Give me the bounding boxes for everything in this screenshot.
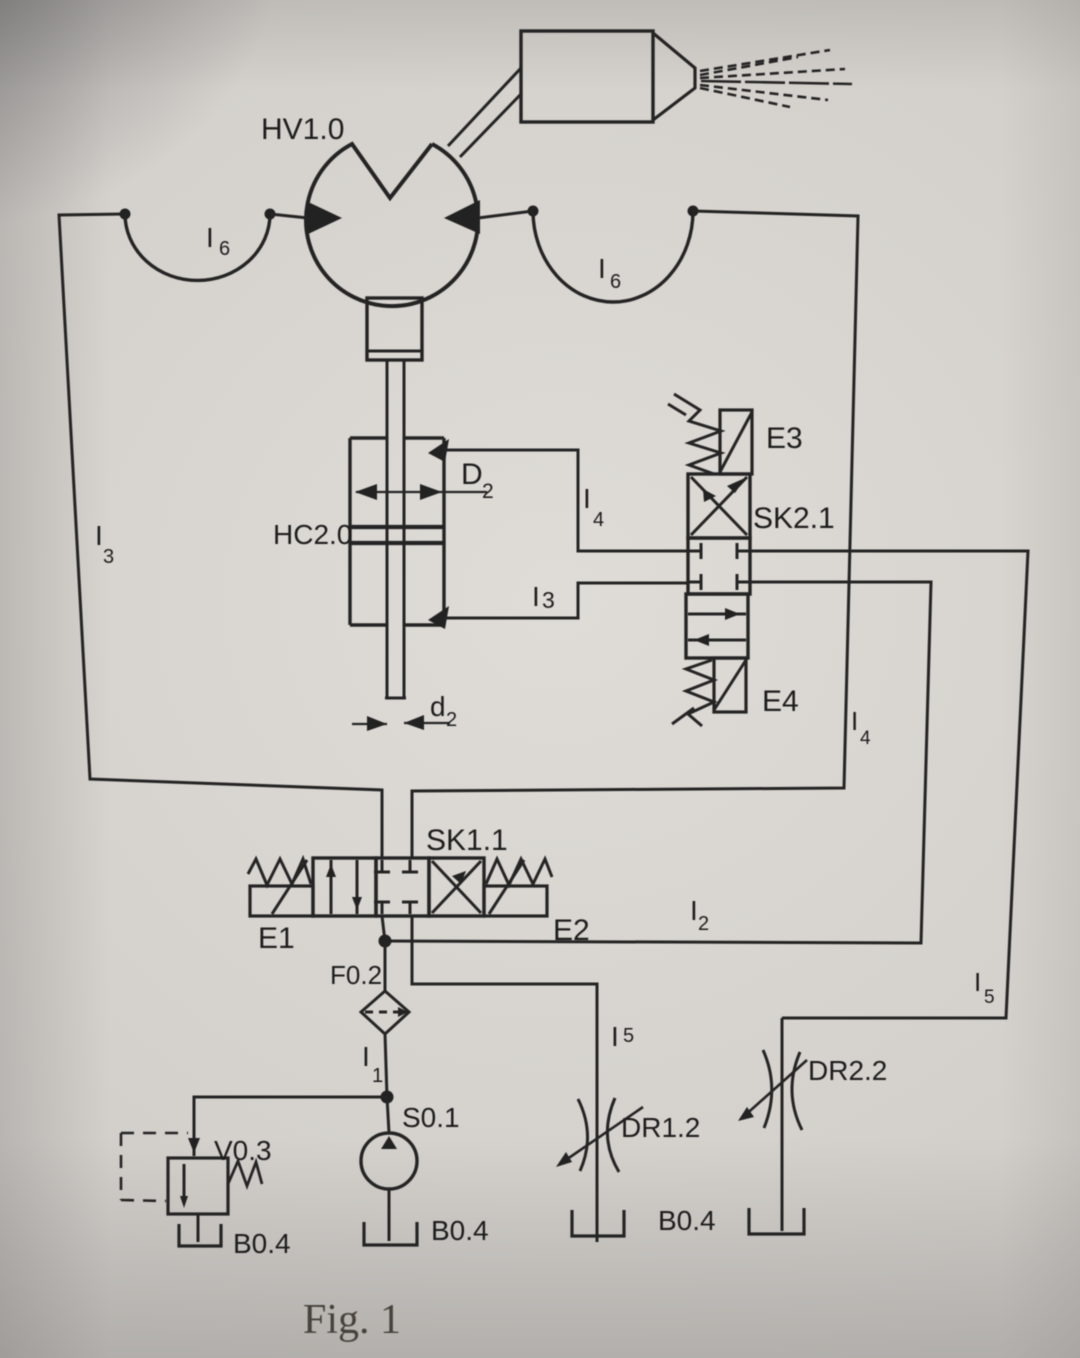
piston — [350, 527, 444, 543]
wire I3 cylinder to SK2.1 — [444, 583, 688, 618]
svg-text:3: 3 — [542, 587, 555, 613]
node dot — [688, 206, 699, 217]
wire to filter — [384, 941, 387, 991]
wire SK2.1 right bottom to I2 — [385, 582, 931, 943]
svg-text:B0.4: B0.4 — [658, 1205, 716, 1236]
svg-text:I: I — [598, 253, 606, 284]
arrow into valve — [188, 1138, 200, 1153]
svg-text:DR1.2: DR1.2 — [621, 1112, 700, 1143]
svg-text:I: I — [206, 222, 214, 253]
spring V0.3 — [228, 1161, 262, 1186]
svg-text:1: 1 — [372, 1065, 383, 1087]
junction dot — [381, 1091, 394, 1104]
valve SK1.1 body boxes — [313, 858, 484, 916]
svg-text:E1: E1 — [258, 922, 295, 955]
wire SK1.1 bottom left port — [382, 916, 385, 941]
svg-text:F0.2: F0.2 — [330, 960, 382, 990]
pump drain — [388, 1189, 391, 1241]
svg-text:B0.4: B0.4 — [431, 1215, 489, 1246]
valve SK2.1 box X — [688, 474, 750, 538]
valve SK2.1 bottom solenoid E4 — [714, 658, 746, 712]
tank B0.4 (DR2.2) — [749, 1208, 804, 1234]
svg-text:HC2.0: HC2.0 — [273, 519, 352, 550]
node dot — [120, 209, 131, 220]
svg-text:HV1.0: HV1.0 — [261, 113, 344, 146]
node dot — [265, 209, 276, 220]
wire filter to pump junction — [385, 1034, 387, 1097]
pilot dashed line — [121, 1133, 188, 1201]
wire — [270, 214, 308, 218]
svg-text:I: I — [974, 967, 981, 997]
dimension d2 — [352, 715, 450, 731]
valve SK2.1 bottom box — [686, 594, 748, 658]
svg-text:SK2.1: SK2.1 — [753, 502, 835, 535]
wire SK1.1 bottom right port to DR1.2 — [412, 916, 597, 1242]
spring E4 — [686, 660, 714, 726]
piston rod — [385, 360, 406, 698]
svg-text:DR2.2: DR2.2 — [808, 1055, 887, 1086]
SK1.1 left box arrows — [326, 860, 362, 914]
svg-text:I: I — [583, 483, 591, 514]
solenoid E2 — [484, 860, 547, 916]
wire junction to V0.3 — [194, 1097, 387, 1156]
valve SK2.1 center box — [688, 538, 750, 594]
hose arc I6 left — [125, 214, 270, 280]
pump S0.1 — [361, 1097, 417, 1189]
svg-text:I: I — [851, 706, 858, 736]
svg-text:2: 2 — [482, 480, 494, 503]
tank B0.4 (left) — [179, 1224, 221, 1246]
wire top-left — [59, 214, 382, 858]
port arrow top — [428, 439, 449, 462]
throttle DR2.2 — [738, 1018, 807, 1231]
motor shaft housing — [367, 298, 422, 360]
svg-text:3: 3 — [103, 546, 114, 568]
svg-text:Fig. 1: Fig. 1 — [303, 1297, 401, 1343]
svg-text:5: 5 — [984, 987, 995, 1008]
svg-text:E4: E4 — [762, 685, 799, 718]
svg-text:SK1.1: SK1.1 — [426, 824, 508, 857]
svg-text:6: 6 — [219, 238, 230, 260]
SK1.1 center box blocked ports — [374, 860, 418, 914]
throttle DR1.2 — [556, 1098, 643, 1172]
wire SK2.1 right top to DR2.2 — [750, 551, 1028, 1018]
svg-text:2: 2 — [446, 709, 457, 731]
wire top-right — [478, 211, 533, 218]
svg-text:I: I — [690, 895, 698, 926]
nozzle cone — [653, 33, 695, 120]
valve SK2.1 top solenoid E3 — [720, 410, 752, 474]
spring E3 — [674, 394, 721, 474]
svg-text:I: I — [95, 520, 103, 551]
svg-text:E2: E2 — [553, 914, 590, 947]
svg-text:4: 4 — [860, 728, 871, 749]
wire I4 cylinder to SK2.1 — [444, 450, 688, 551]
svg-text:E3: E3 — [766, 422, 803, 455]
junction dot — [379, 935, 392, 948]
tank B0.4 (DR1.2) — [572, 1210, 624, 1236]
solenoid E1 — [250, 860, 313, 916]
nozzle shaft — [448, 68, 521, 157]
spray jets — [700, 50, 852, 107]
tank B0.4 (pump) — [364, 1222, 417, 1245]
nozzle body — [521, 31, 653, 122]
cylinder HC2.0 body — [350, 438, 444, 625]
motor HV1.0 — [306, 144, 480, 306]
relief valve V0.3 box — [168, 1158, 228, 1214]
wire to right edge and down — [412, 211, 858, 858]
svg-text:D: D — [461, 458, 483, 491]
svg-text:I: I — [532, 581, 540, 612]
svg-text:6: 6 — [610, 271, 621, 293]
svg-text:B0.4: B0.4 — [233, 1228, 291, 1259]
svg-text:5: 5 — [623, 1025, 634, 1047]
hose arc I6 right — [533, 211, 693, 302]
SK1.1 right box X — [432, 861, 481, 913]
spring E2 — [486, 859, 552, 885]
svg-text:I: I — [611, 1021, 619, 1052]
spring E1 — [248, 859, 311, 885]
svg-text:V0.3: V0.3 — [214, 1135, 272, 1166]
node dot — [528, 206, 539, 217]
svg-text:4: 4 — [593, 509, 604, 531]
port arrow bottom — [428, 606, 449, 629]
svg-text:I: I — [362, 1041, 370, 1072]
svg-text:d: d — [430, 691, 446, 722]
svg-text:2: 2 — [698, 913, 709, 935]
dimension D2 — [355, 484, 487, 500]
V0.3 drain — [197, 1214, 200, 1242]
svg-text:S0.1: S0.1 — [402, 1102, 460, 1133]
filter F0.2 — [361, 991, 409, 1034]
